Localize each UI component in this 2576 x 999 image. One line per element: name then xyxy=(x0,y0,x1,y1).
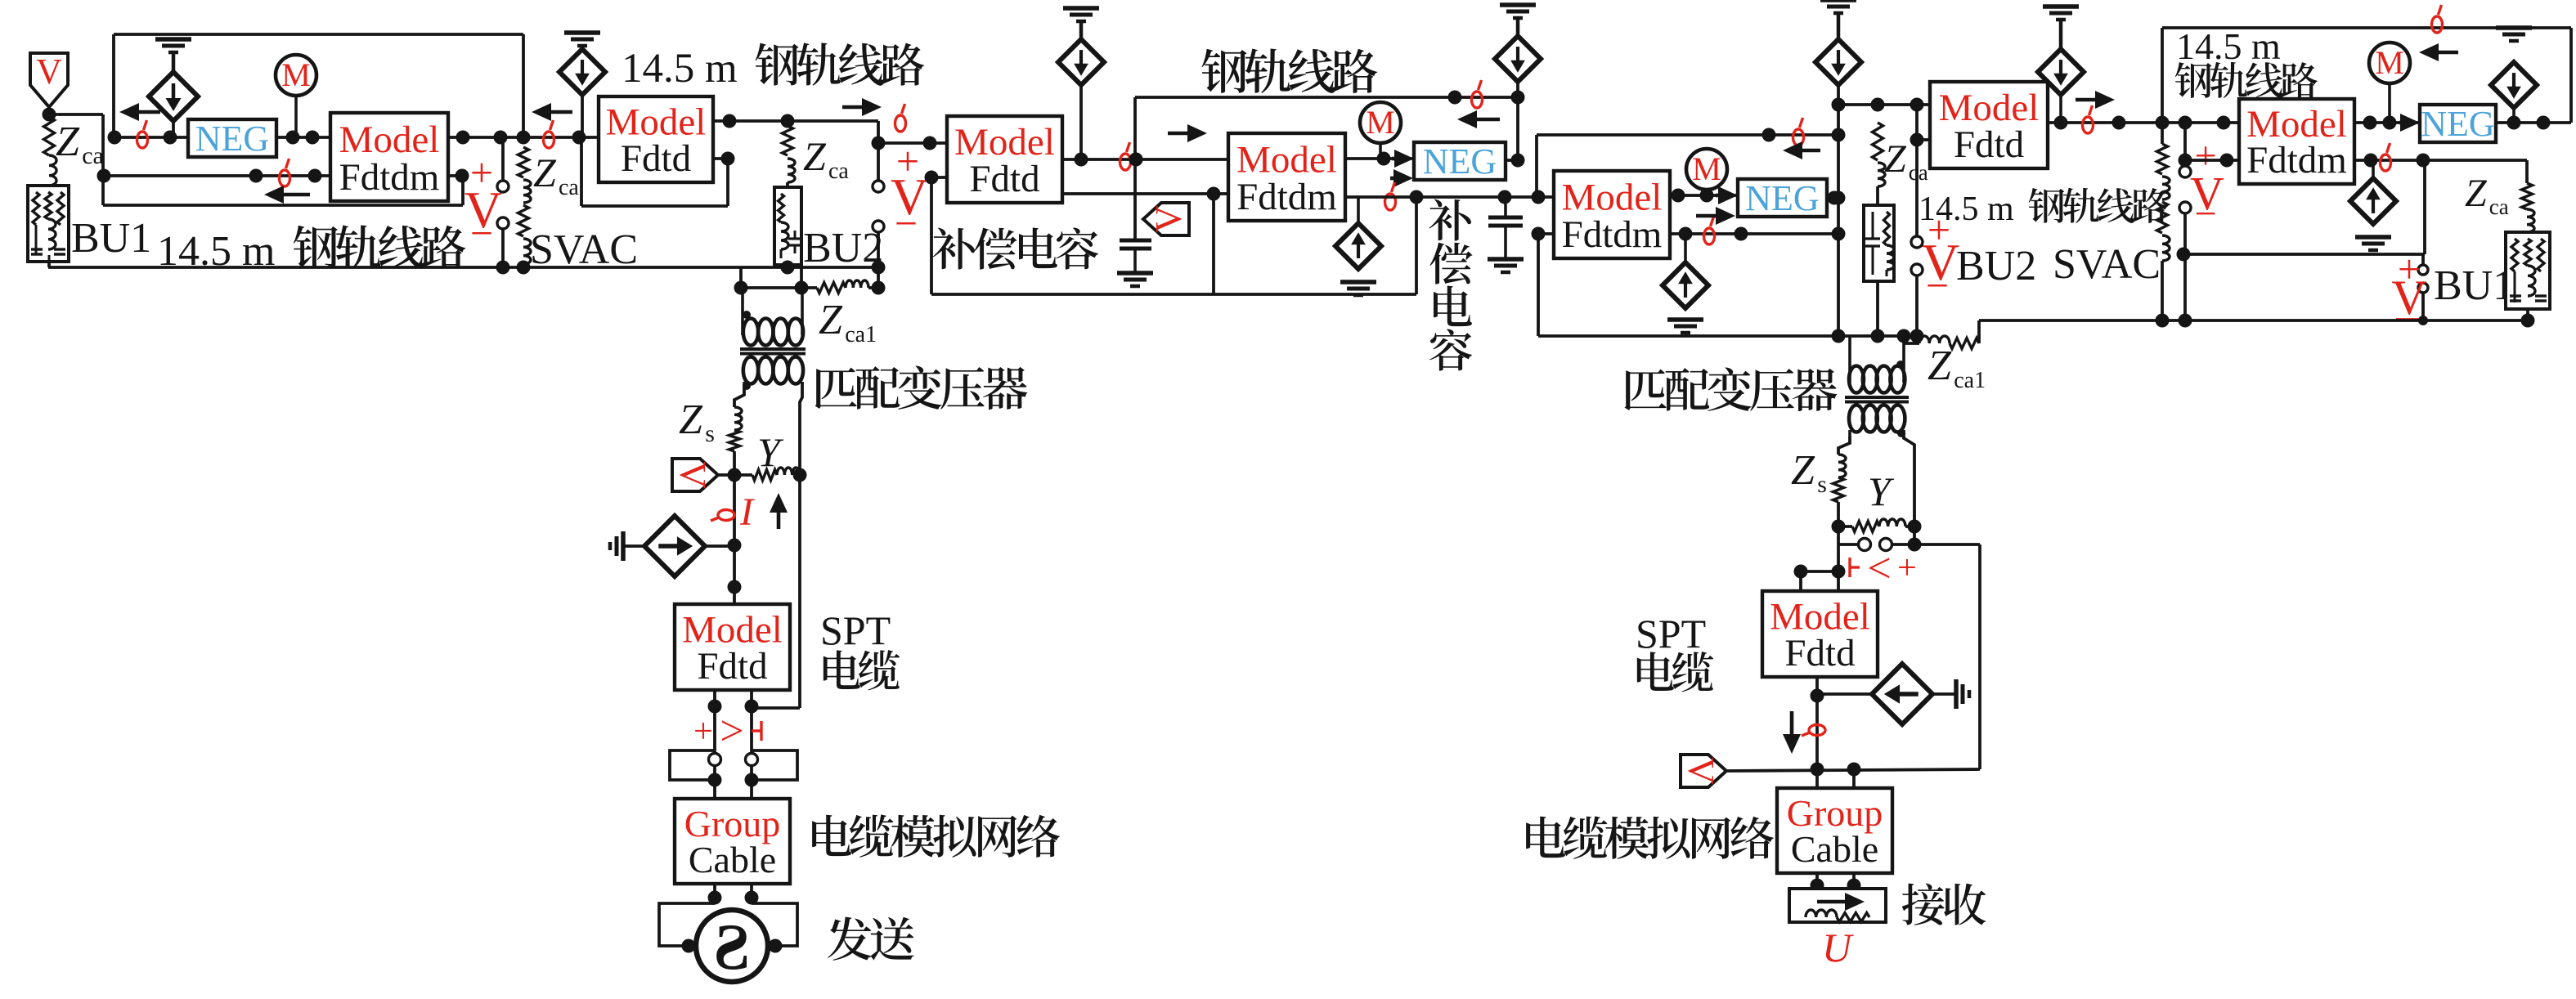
wire T2 sec right xyxy=(1904,430,1914,526)
label Y2 xyxy=(1868,468,1895,514)
node br b xyxy=(2179,314,2192,328)
svg-text:Fdtdm: Fdtdm xyxy=(1236,176,1337,218)
svg-text:Fdtd: Fdtd xyxy=(621,137,691,180)
label Zs2 xyxy=(1791,447,1827,498)
dependent source D9 xyxy=(1663,234,1708,308)
ground G-C1 xyxy=(1117,273,1153,286)
node g1 o2 xyxy=(745,891,759,905)
arrow current lower-left xyxy=(264,186,310,204)
meter M2 xyxy=(1360,102,1401,159)
svg-text:14.5 m: 14.5 m xyxy=(157,228,275,275)
svg-text:Z: Z xyxy=(2465,172,2488,215)
node bottom +V1 xyxy=(872,261,886,275)
terminal +V0 bottom xyxy=(497,217,509,229)
wire y128 xyxy=(1838,103,1930,106)
label +V3 xyxy=(2190,134,2224,235)
arrow current mid2 xyxy=(842,98,882,116)
wire NEG1 to box1 xyxy=(276,136,330,139)
label comp-cap 1 xyxy=(933,228,1098,270)
svg-text:Z: Z xyxy=(1791,447,1815,494)
ground G6 xyxy=(2043,7,2079,49)
node D2 junction xyxy=(572,131,586,145)
impedance Zs1 xyxy=(729,407,743,475)
ground G4 xyxy=(1340,282,1376,295)
arrow current y165 xyxy=(1783,141,1820,159)
svg-text:−: − xyxy=(1926,262,1949,308)
wire box3 lower-left xyxy=(931,177,947,294)
node Zca4 top xyxy=(781,114,795,128)
svg-text:s: s xyxy=(1817,471,1827,498)
svg-text:M: M xyxy=(1366,104,1395,141)
svg-text:V: V xyxy=(672,461,714,488)
wire rail mid top xyxy=(1135,96,1518,99)
dependent source D7 xyxy=(2491,62,2537,123)
node b34 c xyxy=(1207,187,1221,201)
svg-text:Fdtdm: Fdtdm xyxy=(339,156,440,199)
label rail text 1 xyxy=(157,225,465,275)
voltage probe V2 xyxy=(1143,203,1189,235)
node DL xyxy=(728,539,742,553)
model block Fdtd 3 xyxy=(947,116,1062,203)
label rail text 3 xyxy=(1202,49,1378,93)
svg-text:ca: ca xyxy=(828,159,849,184)
wire rail mid2 xyxy=(1345,195,1554,199)
polarity dot T1b xyxy=(743,382,751,390)
svg-text:V: V xyxy=(36,52,62,92)
node y150 svac xyxy=(2156,116,2170,130)
node M4 stem xyxy=(1700,189,1714,203)
node b34 b xyxy=(1129,153,1143,167)
capacitor C1 xyxy=(1120,240,1151,273)
svg-text:SPT: SPT xyxy=(1636,611,1706,656)
ground G-DL xyxy=(610,531,645,561)
label Zca5 xyxy=(1884,137,1928,185)
dependent source D4 xyxy=(1335,197,1381,269)
node BU2-2 b xyxy=(1871,329,1885,343)
arrow current mid1 xyxy=(532,103,572,121)
node NEG2 r xyxy=(1511,154,1525,168)
node box5 ll xyxy=(1532,227,1546,241)
wire D10 stem xyxy=(1079,85,1083,159)
svg-text:s: s xyxy=(705,420,715,447)
meter M4 xyxy=(1686,149,1727,195)
arrow lower NEG2 xyxy=(1390,169,1413,187)
label U xyxy=(1822,925,1854,970)
wire to group1 xyxy=(715,765,752,799)
model block Fdtdm 7 xyxy=(2239,99,2354,184)
marker phi 5 xyxy=(1120,142,1131,170)
dependent source D1 xyxy=(149,72,198,121)
svg-text:SPT: SPT xyxy=(820,607,891,653)
wire box7 lower-right xyxy=(2354,159,2527,162)
label Zca1 right xyxy=(1928,343,1986,393)
transformer T2 core xyxy=(1845,397,1909,402)
node v5 a xyxy=(1811,763,1824,777)
node lower rail b xyxy=(249,169,263,183)
contact 2a xyxy=(1859,539,1871,551)
marker phi 9 xyxy=(1704,217,1715,244)
dependent source D2 xyxy=(559,49,605,95)
node g2 o1 xyxy=(1811,879,1824,893)
svg-text:U: U xyxy=(1822,925,1854,970)
node br c xyxy=(2418,316,2428,325)
node SVAC top xyxy=(517,131,531,145)
wire box7-NEG3 xyxy=(2354,121,2420,124)
impedance Zca4 xyxy=(783,126,796,187)
arrow current rail mid xyxy=(1457,110,1500,128)
svg-text:NEG: NEG xyxy=(1745,178,1819,218)
wire tall mid-right xyxy=(1837,85,1840,336)
svg-text:14.5 m: 14.5 m xyxy=(622,46,738,92)
impedance Zca6 xyxy=(2522,160,2535,232)
wire bottom right rail xyxy=(1979,319,2528,322)
svg-text:NEG: NEG xyxy=(1423,141,1497,181)
wire +V2 branch xyxy=(1917,138,1930,141)
svg-text:BU2: BU2 xyxy=(1956,243,2036,289)
svg-text:V: V xyxy=(1147,205,1189,232)
node y411 zca1 xyxy=(1897,329,1911,343)
arrow current b34 xyxy=(1168,124,1207,142)
label cable-net 1 xyxy=(812,814,1060,858)
svg-text:Fdtd: Fdtd xyxy=(1784,632,1855,674)
svg-text:Z: Z xyxy=(56,119,80,165)
node loop7 r xyxy=(2417,154,2430,168)
group block 2 xyxy=(1777,788,1892,873)
svg-text:Model: Model xyxy=(339,119,440,161)
terminal +V1 top xyxy=(873,181,884,192)
svg-text:M: M xyxy=(1692,150,1721,187)
dependent source D8 xyxy=(2350,160,2396,224)
wire BU2 bottom xyxy=(786,265,789,267)
polarity dot T2b xyxy=(1897,429,1905,437)
wire D-R branch xyxy=(1817,692,1873,696)
node b7 ll xyxy=(2179,154,2192,168)
wire src loop l xyxy=(659,903,715,946)
impedance SVAC left xyxy=(518,147,532,267)
wire y411 xyxy=(1538,334,1917,338)
svg-text:Fdtdm: Fdtdm xyxy=(1562,213,1663,256)
marker phi I xyxy=(711,510,734,522)
node NEG4 r xyxy=(1828,191,1842,205)
node box2 out1 xyxy=(723,114,737,128)
node rail2 b xyxy=(1498,190,1512,204)
svg-text:M: M xyxy=(281,56,311,93)
wire loop right chain xyxy=(1914,544,1980,769)
svg-text:Z: Z xyxy=(533,150,557,195)
svg-text:+: + xyxy=(1897,549,1917,587)
BU2 box 2 xyxy=(1864,205,1894,281)
node g2 o2 xyxy=(1847,879,1861,893)
node v5 b xyxy=(1847,763,1861,777)
svg-text:Z: Z xyxy=(679,396,703,443)
label +V0 xyxy=(464,150,502,256)
svg-text:V: V xyxy=(1681,757,1722,784)
label rail text 4 xyxy=(1919,188,2168,228)
label rail 2line xyxy=(2175,25,2318,98)
receiver box xyxy=(1789,889,1886,922)
dependent source D6 xyxy=(2038,49,2084,123)
node jumper a xyxy=(1832,565,1846,579)
transformer T2 primary xyxy=(1849,336,1905,393)
arrow into NEG3 xyxy=(2399,114,2420,132)
node bottom +V0 xyxy=(496,261,510,275)
voltage probe V5 xyxy=(1681,755,1726,787)
node NEG1 out xyxy=(286,131,300,145)
node lower rail c xyxy=(308,169,322,183)
label rail text 2 xyxy=(622,43,924,92)
source AC xyxy=(696,910,768,983)
wire box7 lower-left xyxy=(2185,159,2239,162)
model block SPT Fdtd 2 xyxy=(1762,591,1878,677)
node loop7 l xyxy=(2177,248,2191,262)
wire bypass 1a xyxy=(670,750,715,780)
svg-text:ca: ca xyxy=(82,142,104,169)
label SVAC xyxy=(530,226,638,273)
wire T1 sec right xyxy=(800,382,802,475)
wire rail y286 xyxy=(1670,232,1838,235)
marker phi 12 xyxy=(2381,143,2391,171)
arrow down right chain xyxy=(1783,711,1801,754)
admittance Y1 xyxy=(718,468,800,481)
voltmeter +V4 wire xyxy=(2421,254,2425,320)
node NEG3 r2 xyxy=(2537,116,2551,130)
svg-text:BU2: BU2 xyxy=(803,225,883,271)
label Zca4 xyxy=(803,133,849,184)
wire corner to box3 xyxy=(878,141,947,145)
ground G-C2 xyxy=(1488,259,1524,272)
capacitor C2 xyxy=(1488,197,1523,259)
wire DL to node xyxy=(705,544,734,548)
model block SPT Fdtd 1 xyxy=(675,604,790,690)
node c2 xyxy=(1908,538,1922,552)
node M3 stem xyxy=(2383,116,2397,130)
svg-text:+: + xyxy=(693,713,713,750)
label receive xyxy=(1902,883,1986,925)
BU1 box xyxy=(28,186,69,262)
arrow into NEG2 xyxy=(1392,150,1414,168)
label comp-cap 2 xyxy=(1429,199,1473,371)
wire box4-NEG2 xyxy=(1345,157,1414,160)
svg-text:S: S xyxy=(714,912,751,983)
node byp b xyxy=(745,773,759,787)
node box3 ll xyxy=(925,171,939,185)
transformer T2 secondary xyxy=(1849,405,1905,439)
node Y2 right xyxy=(1908,520,1922,534)
impedance Zca left xyxy=(44,114,57,186)
svg-text:−: − xyxy=(2194,192,2216,235)
node box1 out1 xyxy=(456,131,470,145)
node src l xyxy=(682,939,696,953)
impedance Zs2 xyxy=(1833,455,1847,526)
node src r xyxy=(769,939,783,953)
wire T2 sec left xyxy=(1838,437,1850,455)
wire upper rail left segment xyxy=(114,136,188,139)
svg-text:NEG: NEG xyxy=(195,119,269,159)
meter M1 xyxy=(276,55,316,137)
node b34 a xyxy=(1075,153,1088,167)
node y150 pv3 xyxy=(2179,116,2192,130)
admittance Y2 xyxy=(1838,519,1914,532)
model block Fdtd 6 xyxy=(1930,82,2048,168)
ground G8 xyxy=(2355,237,2391,250)
marker phi 11 xyxy=(2432,5,2443,33)
node rail drop xyxy=(1129,153,1143,167)
node wire352 r xyxy=(872,281,886,295)
wire box6 out xyxy=(2048,121,2239,124)
marker phi 4 xyxy=(895,104,906,132)
label +V1 xyxy=(891,138,928,246)
wire V1 branch xyxy=(49,114,103,205)
dependent source DR xyxy=(1872,664,1932,724)
svg-text:Z: Z xyxy=(819,297,843,343)
label BU1 2 xyxy=(2434,262,2514,309)
marker phi 3 xyxy=(544,120,554,148)
voltmeter +V3 xyxy=(2183,123,2187,320)
node y150 a xyxy=(2112,116,2126,130)
ground G-DR xyxy=(1932,679,1969,709)
NEG box 4 xyxy=(1738,178,1827,218)
label Zs1 xyxy=(679,396,715,447)
loop return left xyxy=(103,176,463,205)
wire SPT1 loop right xyxy=(752,475,800,708)
marker phi 7 xyxy=(1385,182,1396,210)
NEG box 3 xyxy=(2420,104,2496,144)
terminal +V0 top xyxy=(497,181,509,192)
node rail-left xyxy=(108,131,122,145)
arrow current left-top xyxy=(119,103,160,121)
wire jumper xyxy=(1801,571,1838,591)
wire loop mid xyxy=(931,194,1416,294)
svg-text:ca1: ca1 xyxy=(845,322,877,347)
svg-text:I: I xyxy=(739,491,755,534)
node b7 ll2 xyxy=(2220,154,2234,168)
ground G7 xyxy=(2496,28,2532,41)
wire D2 stem xyxy=(581,95,584,137)
wire box5-NEG4 xyxy=(1670,194,1738,197)
label send xyxy=(828,916,914,960)
marker phi 10 xyxy=(2083,105,2094,133)
impedance Zca1 left xyxy=(817,280,868,293)
label +V2 xyxy=(1922,207,1959,308)
wire loop7 xyxy=(2183,160,2425,254)
wire box2 loop xyxy=(581,137,728,206)
svg-text:NEG: NEG xyxy=(2421,104,2494,144)
label Zca6 xyxy=(2465,172,2509,219)
node rail2 c xyxy=(1532,190,1546,204)
svg-text:Fdtd: Fdtd xyxy=(969,158,1039,200)
polarity dot T1a xyxy=(743,311,751,319)
node b7 lr xyxy=(2364,154,2378,168)
node rail2 a xyxy=(1410,190,1424,204)
arrow current y286 xyxy=(1696,207,1735,225)
wire D1 stem xyxy=(172,121,175,137)
wire SPT1 outs xyxy=(715,690,752,753)
node y286 b xyxy=(1735,227,1748,241)
wire T1 sec left xyxy=(734,384,744,407)
terminal +V1 bottom xyxy=(873,221,884,232)
wire group2 outs xyxy=(1817,873,1854,889)
node tall d xyxy=(1832,227,1846,241)
label BU2 2 xyxy=(1956,243,2036,289)
svg-text:−: − xyxy=(470,210,493,256)
voltmeter +V0 wire xyxy=(501,137,505,267)
meter M3 xyxy=(2369,43,2410,123)
node SPT1 o2 xyxy=(745,700,759,714)
arrow up I xyxy=(770,493,788,529)
node tall c xyxy=(1832,191,1846,205)
marker phi 2 xyxy=(280,159,290,186)
wire contact2 row xyxy=(1838,526,1914,571)
label +V4 xyxy=(2391,246,2426,325)
node SPT2 o xyxy=(1811,689,1824,703)
node g1 o1 xyxy=(708,891,722,905)
wire V5 row xyxy=(1726,769,1980,771)
wire bypass 1b xyxy=(752,750,797,780)
voltmeter +V1 wire xyxy=(877,232,880,288)
wire to group2 xyxy=(1817,769,1854,788)
wire BU1-2 bottom xyxy=(2526,309,2529,320)
wire NEG2 right xyxy=(1506,81,1518,160)
wire box2 upper out xyxy=(713,121,878,181)
node Y1 left xyxy=(728,468,742,482)
wire box3-box4 lower xyxy=(1062,192,1228,195)
marker phi 1 xyxy=(137,120,148,148)
dependent source D10 xyxy=(1058,39,1104,85)
node y165 a xyxy=(1762,128,1776,142)
wire y165 xyxy=(1537,135,1838,197)
dependent source D3 xyxy=(1495,36,1541,82)
node wire352 l xyxy=(734,281,748,295)
terminal +V3 top xyxy=(2179,166,2191,177)
terminal +V3 bottom xyxy=(2179,202,2191,213)
svg-text:ca: ca xyxy=(559,175,579,200)
lower rail left xyxy=(103,174,330,177)
svg-text:Z: Z xyxy=(803,133,827,179)
terminal +V2 top xyxy=(1911,236,1923,248)
node tall a xyxy=(1832,98,1846,112)
svg-text:BU1: BU1 xyxy=(71,215,151,262)
voltage probe V3 xyxy=(672,459,718,491)
wire top-right loop xyxy=(2162,28,2571,144)
label Zca SVAC xyxy=(533,150,579,200)
dependent source DL xyxy=(644,516,705,576)
wire box1 out upper xyxy=(448,136,599,139)
svg-text:−: − xyxy=(895,200,918,246)
svg-text:ca: ca xyxy=(2489,195,2509,219)
svg-text:Cable: Cable xyxy=(1791,828,1878,870)
node corner3 xyxy=(872,137,886,150)
ground G5 xyxy=(1820,0,1856,38)
dependent source D5 xyxy=(1815,39,1861,85)
marker phi 8 xyxy=(1793,118,1804,146)
svg-text:SVAC: SVAC xyxy=(530,226,638,273)
impedance Zca5 xyxy=(1873,123,1886,205)
label cable-net 2 xyxy=(1526,816,1774,859)
polarity dot T2a xyxy=(1896,361,1905,369)
contact 1b xyxy=(746,754,758,766)
svg-text:BU1: BU1 xyxy=(2434,262,2514,309)
node +V2 bottom xyxy=(1910,329,1924,343)
wire NEG3 right xyxy=(2496,121,2571,124)
label Zca left xyxy=(56,119,104,169)
voltage probe V1 xyxy=(30,52,68,114)
node jumper b xyxy=(1794,565,1808,579)
model block Fdtdm 4 xyxy=(1228,133,1345,221)
node SPT1 o1 xyxy=(708,700,722,714)
ground G9 xyxy=(1667,320,1703,333)
wire rail mid drop xyxy=(1133,97,1137,240)
node box2 out2 xyxy=(721,152,735,166)
